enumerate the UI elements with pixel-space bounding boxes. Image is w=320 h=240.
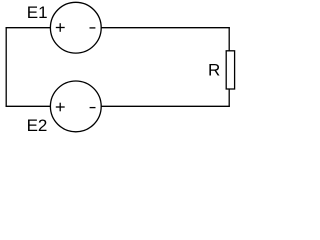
E1 minus terminal mark [90,27,96,29]
wire: left vertical rail [5,27,7,107]
voltage source E2 (circle body) [50,81,101,132]
wire: right vertical lower (resistor bottom pin) [228,89,230,107]
svg-text:E2: E2 [27,116,48,135]
wire: right vertical upper (to resistor top pin) [228,27,230,51]
wire: top-right horizontal (E1 right terminal to resistor branch) [101,27,230,29]
E2 plus terminal mark [56,103,65,112]
voltage source E1 (circle body) [50,2,101,53]
wire: bottom-right horizontal (resistor branch to E2 right terminal) [101,105,230,107]
resistor R (rectangle body) [226,51,234,89]
wire: top-left horizontal (left rail to E1 left terminal) [6,27,51,29]
svg-text:R: R [208,60,220,79]
svg-text:E1: E1 [27,3,48,22]
E2 minus terminal mark [90,107,96,109]
E1 plus terminal mark [56,23,65,32]
wire: bottom-left horizontal (left rail to E2 left terminal) [6,105,51,107]
